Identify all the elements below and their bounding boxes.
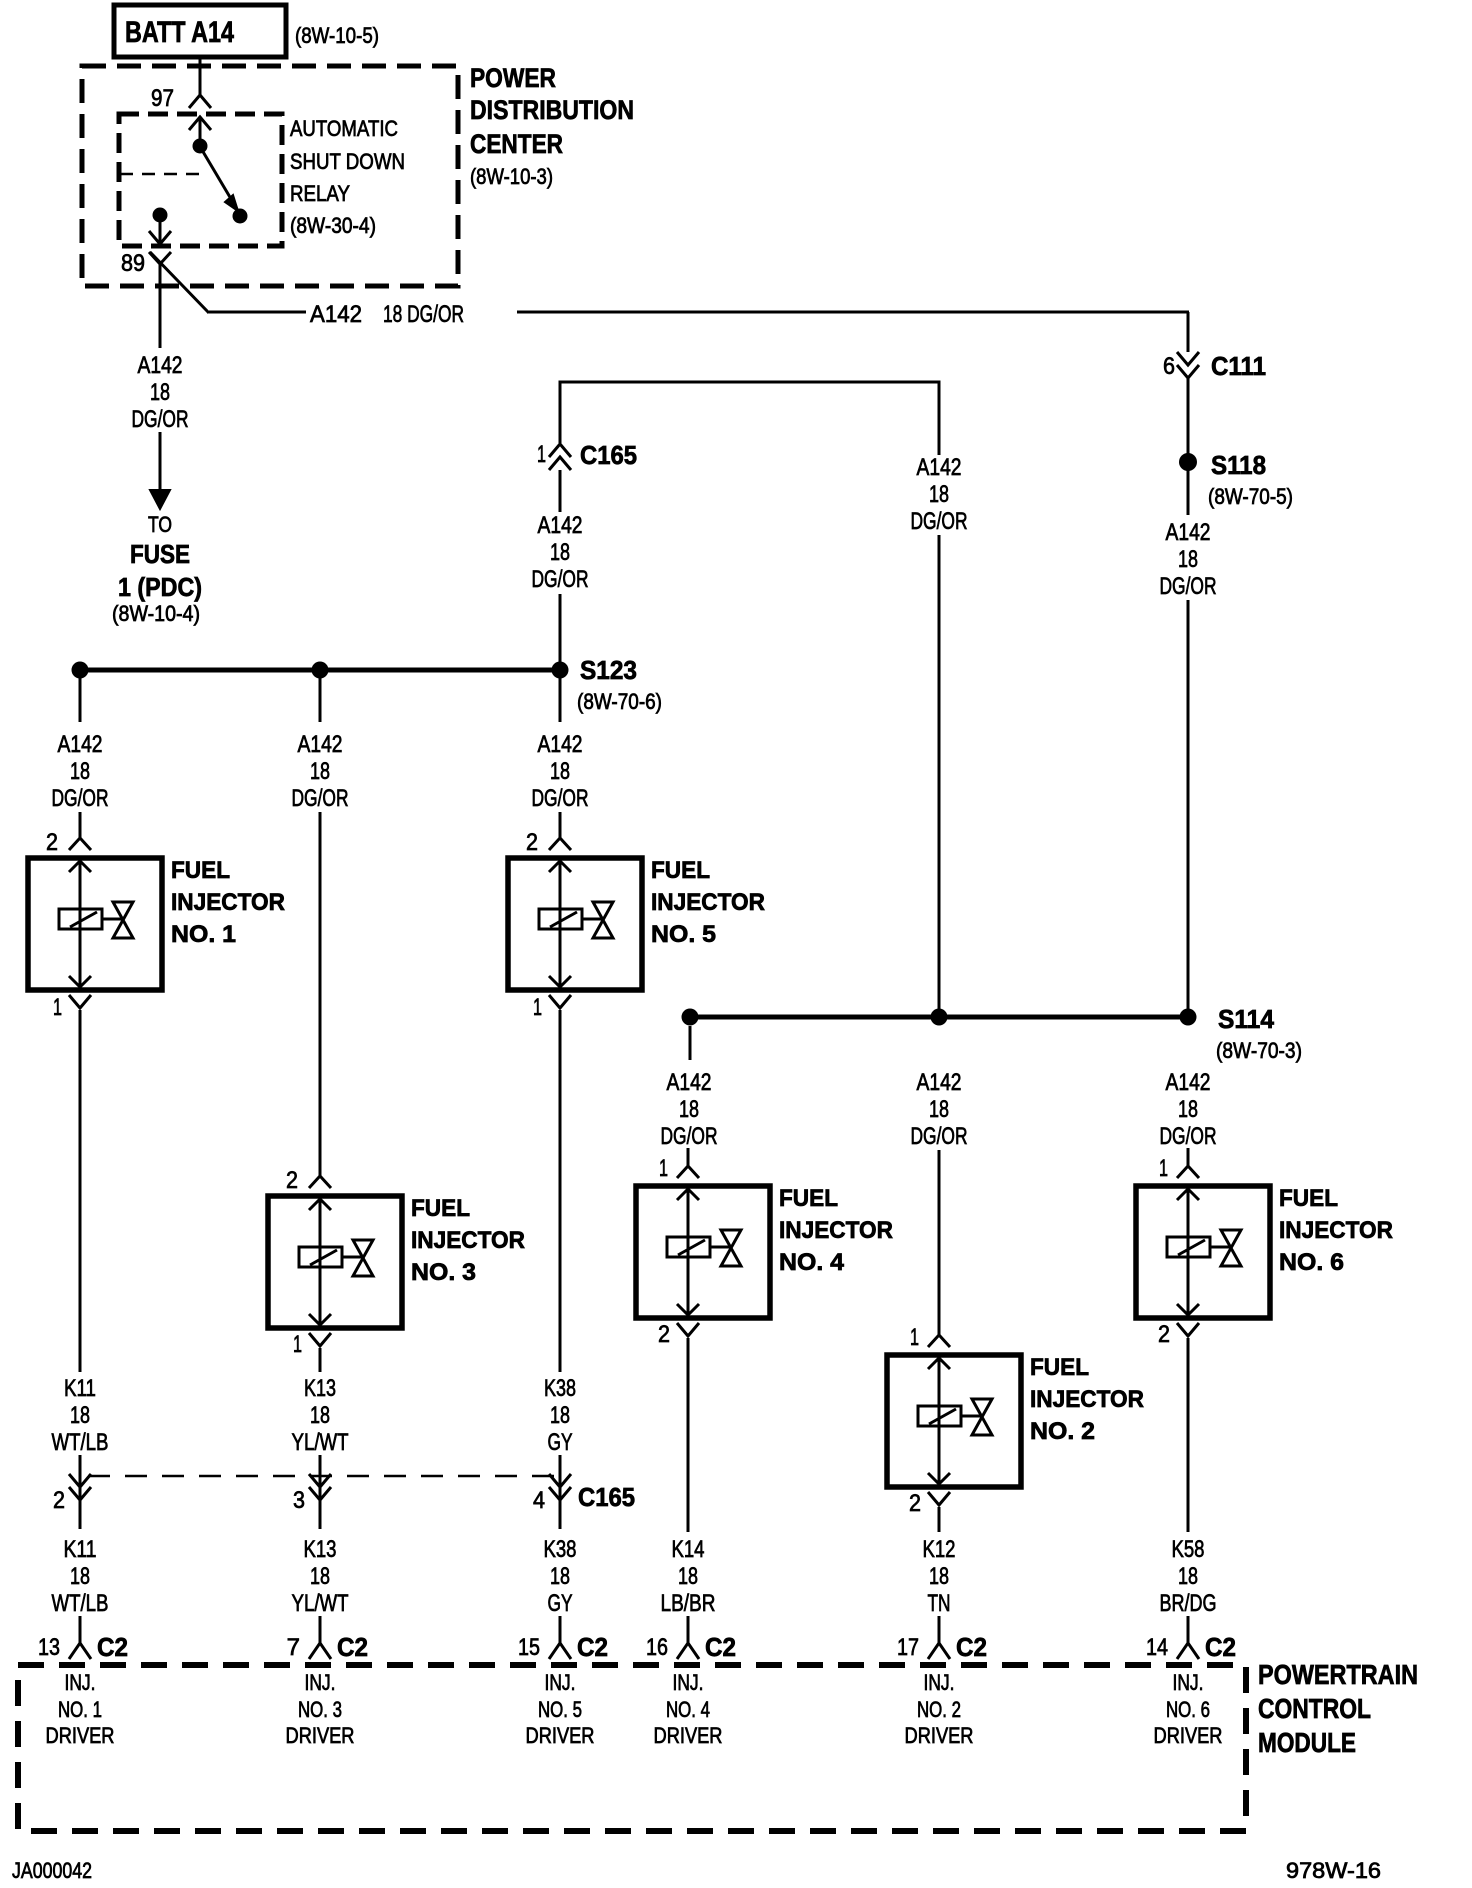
svg-text:INJECTOR: INJECTOR	[779, 1217, 893, 1244]
splice S123 dot	[552, 662, 569, 679]
svg-text:A142: A142	[310, 301, 362, 328]
svg-text:18 DG/OR: 18 DG/OR	[383, 301, 464, 328]
label A142 18 DG/OR inline	[310, 301, 464, 328]
splice S123 bus wire	[80, 668, 560, 673]
svg-text:(8W-70-3): (8W-70-3)	[1216, 1038, 1302, 1063]
wire into C165 pin 3	[319, 1455, 322, 1529]
wire to fuel injector 2 pin 1	[938, 1150, 941, 1335]
svg-text:NO. 2: NO. 2	[917, 1697, 961, 1722]
svg-text:NO. 5: NO. 5	[538, 1697, 582, 1722]
svg-text:DRIVER: DRIVER	[905, 1723, 974, 1748]
label INJ NO. 5 DRIVER	[526, 1670, 595, 1748]
svg-text:1: 1	[537, 441, 546, 468]
svg-text:18: 18	[550, 539, 570, 566]
svg-text:INJ.: INJ.	[545, 1670, 576, 1695]
svg-text:DRIVER: DRIVER	[1154, 1723, 1223, 1748]
svg-text:DRIVER: DRIVER	[286, 1723, 355, 1748]
label S123	[577, 655, 662, 714]
splice dot injector 3 branch	[312, 662, 329, 679]
svg-text:FUEL: FUEL	[779, 1185, 838, 1212]
svg-text:FUEL: FUEL	[171, 857, 230, 884]
label TO FUSE 1 (PDC)	[112, 512, 202, 626]
connector pin 97	[189, 95, 211, 108]
svg-text:YL/WT: YL/WT	[292, 1590, 349, 1617]
label INJ NO. 6 DRIVER	[1154, 1670, 1223, 1748]
label S114	[1216, 1004, 1302, 1063]
svg-text:16: 16	[646, 1634, 668, 1661]
wire into PCM pin 13	[79, 1616, 82, 1634]
relay internal dashed line	[120, 173, 208, 176]
fuel injector 4	[636, 1186, 770, 1318]
connector fuel injector 5 pin 2	[549, 838, 571, 850]
svg-text:A142: A142	[138, 352, 183, 379]
svg-text:(8W-30-4): (8W-30-4)	[290, 213, 376, 238]
svg-text:NO. 1: NO. 1	[171, 921, 236, 948]
splice dot injector 4 branch	[682, 1009, 699, 1026]
svg-text:JA000042: JA000042	[12, 1858, 92, 1883]
label INJ NO. 2 DRIVER	[905, 1670, 974, 1748]
svg-text:1: 1	[533, 994, 542, 1021]
svg-text:INJ.: INJ.	[305, 1670, 336, 1695]
label FUEL INJECTOR NO. 3	[411, 1195, 525, 1286]
relay output arrow to pin 89	[149, 222, 171, 244]
svg-text:C2: C2	[97, 1632, 128, 1662]
svg-text:DG/OR: DG/OR	[1160, 573, 1217, 600]
svg-text:A142: A142	[58, 731, 103, 758]
wire down to S114 center	[938, 535, 941, 1017]
svg-text:2: 2	[658, 1321, 670, 1348]
svg-text:A142: A142	[917, 454, 962, 481]
wire A142 branch horizontal left segment	[209, 311, 306, 314]
svg-text:2: 2	[526, 829, 538, 856]
wire below S118	[1187, 470, 1190, 515]
svg-text:18: 18	[1178, 1096, 1198, 1123]
svg-text:AUTOMATIC: AUTOMATIC	[290, 116, 398, 141]
svg-text:1: 1	[659, 1155, 668, 1182]
wire down to connector C111	[1187, 312, 1190, 352]
label INJ NO. 3 DRIVER	[286, 1670, 355, 1748]
power distribution center dashed box	[82, 66, 458, 286]
wire into PCM pin 7	[319, 1616, 322, 1634]
svg-text:15: 15	[518, 1634, 540, 1661]
svg-text:C2: C2	[956, 1632, 987, 1662]
connector fuel injector 2 pin 1	[928, 1335, 950, 1347]
svg-text:GY: GY	[548, 1590, 573, 1617]
label INJ NO. 1 DRIVER	[46, 1670, 115, 1748]
connector fuel injector 3 pin 2	[309, 1176, 331, 1188]
relay common contact dot	[193, 139, 208, 154]
svg-text:DG/OR: DG/OR	[911, 508, 968, 535]
svg-text:TN: TN	[928, 1590, 951, 1617]
svg-text:A142: A142	[298, 731, 343, 758]
svg-text:(8W-10-4): (8W-10-4)	[112, 601, 200, 626]
splice S118 dot	[1179, 453, 1197, 471]
svg-text:NO. 1: NO. 1	[58, 1697, 102, 1722]
svg-text:C2: C2	[1205, 1632, 1236, 1662]
svg-text:NO. 6: NO. 6	[1166, 1697, 1210, 1722]
svg-text:A142: A142	[1166, 519, 1211, 546]
svg-text:INJECTOR: INJECTOR	[1279, 1217, 1393, 1244]
svg-text:WT/LB: WT/LB	[52, 1429, 109, 1456]
svg-text:18: 18	[150, 379, 170, 406]
svg-text:POWERTRAIN: POWERTRAIN	[1258, 1659, 1418, 1690]
connector C165 pin 3	[309, 1474, 331, 1487]
arrow to fuse 1 PDC	[150, 490, 170, 509]
svg-text:DRIVER: DRIVER	[526, 1723, 595, 1748]
svg-text:NO. 4: NO. 4	[666, 1697, 710, 1722]
wire to splice S123	[559, 594, 562, 668]
svg-text:3: 3	[293, 1487, 305, 1514]
svg-text:18: 18	[550, 1402, 570, 1429]
wire below C165 pin 1	[559, 470, 562, 512]
connector pin 89	[149, 252, 171, 264]
wire below fuel injector 6	[1187, 1338, 1190, 1532]
wire below fuel injector 5	[559, 1010, 562, 1372]
connector fuel injector 4 pin 2	[677, 1323, 699, 1336]
svg-text:DG/OR: DG/OR	[532, 785, 589, 812]
svg-text:DG/OR: DG/OR	[52, 785, 109, 812]
automatic shut down relay dashed box	[119, 114, 282, 246]
wire below fuel injector 2	[938, 1507, 941, 1532]
svg-text:BATT A14: BATT A14	[125, 16, 234, 49]
svg-text:INJECTOR: INJECTOR	[651, 889, 765, 916]
svg-text:1: 1	[53, 994, 62, 1021]
connector C111 pin 6	[1177, 352, 1199, 365]
svg-text:A142: A142	[1166, 1069, 1211, 1096]
wire A142 branch horizontal to C111	[517, 311, 1189, 314]
svg-text:YL/WT: YL/WT	[292, 1429, 349, 1456]
label POWERTRAIN CONTROL MODULE	[1258, 1659, 1418, 1758]
svg-text:NO. 2: NO. 2	[1030, 1418, 1095, 1445]
svg-text:2: 2	[286, 1167, 298, 1194]
connector C2 pin 13	[69, 1630, 91, 1659]
connector fuel injector 6 pin 2	[1177, 1323, 1199, 1336]
svg-text:DRIVER: DRIVER	[46, 1723, 115, 1748]
wire to fuse 1 PDC	[159, 432, 162, 494]
svg-text:14: 14	[1146, 1634, 1168, 1661]
svg-text:C165: C165	[578, 1482, 635, 1512]
svg-text:C165: C165	[580, 440, 637, 470]
wire into PCM pin 16	[687, 1616, 690, 1634]
wire stub below S114 injector 4 branch	[689, 1026, 692, 1060]
svg-text:(8W-70-5): (8W-70-5)	[1208, 484, 1293, 509]
label AUTOMATIC SHUT DOWN RELAY	[290, 116, 405, 238]
fuel injector 2	[887, 1355, 1021, 1487]
svg-text:1 (PDC): 1 (PDC)	[118, 572, 202, 602]
svg-text:K14: K14	[672, 1536, 705, 1563]
wire S118 to S114	[1187, 600, 1190, 1017]
svg-text:BR/DG: BR/DG	[1160, 1590, 1217, 1617]
svg-text:NO. 6: NO. 6	[1279, 1249, 1344, 1276]
battery feed box BATT A14	[114, 5, 286, 57]
svg-text:CENTER: CENTER	[470, 129, 563, 159]
wire into C165 pin 2	[79, 1455, 82, 1529]
label S118	[1208, 450, 1293, 509]
svg-text:18: 18	[929, 1096, 949, 1123]
svg-text:18: 18	[70, 1402, 90, 1429]
svg-text:FUEL: FUEL	[651, 857, 710, 884]
svg-text:(8W-70-6): (8W-70-6)	[577, 689, 662, 714]
splice dot injector 2 branch	[931, 1009, 948, 1026]
fuel injector 1	[28, 858, 162, 990]
connector fuel injector 2 pin 2	[928, 1492, 950, 1505]
svg-text:18: 18	[929, 1563, 949, 1590]
svg-text:18: 18	[310, 758, 330, 785]
svg-text:1: 1	[910, 1324, 919, 1351]
wire to fuel injector 1 pin 2	[79, 812, 82, 838]
wire to fuel injector 3	[319, 812, 322, 1176]
wire stub to injector 4 pin 1	[687, 1148, 690, 1166]
relay NO contact dot	[233, 209, 248, 224]
svg-text:97: 97	[151, 85, 174, 112]
svg-text:SHUT DOWN: SHUT DOWN	[290, 149, 405, 174]
powertrain control module dashed box	[18, 1665, 1246, 1831]
diagonal branch leader from pin 89	[150, 252, 209, 313]
svg-text:A142: A142	[667, 1069, 712, 1096]
svg-text:18: 18	[70, 1563, 90, 1590]
svg-text:17: 17	[897, 1634, 919, 1661]
wire below fuel injector 1	[79, 1010, 82, 1372]
svg-text:WT/LB: WT/LB	[52, 1590, 109, 1617]
svg-text:K11: K11	[64, 1536, 97, 1563]
svg-text:DG/OR: DG/OR	[1160, 1123, 1217, 1150]
svg-text:18: 18	[1178, 1563, 1198, 1590]
svg-text:FUEL: FUEL	[1279, 1185, 1338, 1212]
connector C2 pin 7	[309, 1630, 331, 1659]
svg-text:DISTRIBUTION: DISTRIBUTION	[470, 95, 634, 125]
relay output contact dot pin 89	[153, 208, 168, 223]
label FUEL INJECTOR NO. 5	[651, 857, 765, 948]
svg-text:FUEL: FUEL	[411, 1195, 470, 1222]
svg-text:K38: K38	[544, 1375, 576, 1402]
svg-text:C111: C111	[1211, 351, 1266, 381]
svg-text:K11: K11	[64, 1375, 96, 1402]
svg-text:DRIVER: DRIVER	[654, 1723, 723, 1748]
splice S114 bus wire	[690, 1015, 1188, 1020]
svg-text:2: 2	[1158, 1321, 1170, 1348]
fuel injector 6	[1136, 1186, 1270, 1318]
svg-text:INJ.: INJ.	[65, 1670, 96, 1695]
label POWER DISTRIBUTION CENTER	[470, 63, 634, 189]
svg-text:DG/OR: DG/OR	[292, 785, 349, 812]
svg-text:(8W-10-3): (8W-10-3)	[470, 164, 553, 189]
svg-text:K58: K58	[1172, 1536, 1205, 1563]
svg-text:978W-16: 978W-16	[1286, 1858, 1381, 1883]
label FUEL INJECTOR NO. 4	[779, 1185, 893, 1276]
svg-text:S118: S118	[1211, 450, 1266, 480]
wire stub below splice x=80	[79, 676, 82, 722]
connector C165 pin 1	[549, 444, 571, 457]
svg-text:POWER: POWER	[470, 63, 556, 93]
wire BATT A14 to relay pin 97	[199, 57, 202, 95]
connector C2 pin 15	[549, 1630, 571, 1659]
svg-text:NO. 4: NO. 4	[779, 1249, 845, 1276]
svg-text:18: 18	[1178, 546, 1198, 573]
splice S114 dot	[1180, 1009, 1197, 1026]
svg-text:18: 18	[550, 758, 570, 785]
svg-text:FUSE: FUSE	[130, 539, 190, 569]
svg-text:A142: A142	[538, 731, 583, 758]
svg-text:2: 2	[46, 829, 58, 856]
svg-text:MODULE: MODULE	[1258, 1727, 1356, 1758]
svg-text:INJECTOR: INJECTOR	[411, 1227, 525, 1254]
svg-text:18: 18	[70, 758, 90, 785]
connector fuel injector 1 pin 2	[69, 838, 91, 850]
wire stub below splice x=320	[319, 676, 322, 722]
svg-text:DG/OR: DG/OR	[661, 1123, 718, 1150]
connector fuel injector 6 pin 1	[1177, 1166, 1199, 1178]
connector C2 pin 16	[677, 1630, 699, 1659]
svg-text:A142: A142	[917, 1069, 962, 1096]
svg-text:2: 2	[909, 1490, 921, 1517]
wire below fuel injector 4	[687, 1338, 690, 1532]
svg-text:18: 18	[678, 1563, 698, 1590]
connector fuel injector 5 pin 1	[549, 995, 571, 1008]
wire C111 to splice S118	[1187, 378, 1190, 455]
wire into C165 pin 4	[559, 1455, 562, 1529]
svg-text:GY: GY	[548, 1429, 573, 1456]
svg-text:13: 13	[38, 1634, 60, 1661]
svg-text:1: 1	[1159, 1155, 1168, 1182]
svg-text:K13: K13	[304, 1536, 337, 1563]
svg-text:4: 4	[533, 1487, 545, 1514]
connector fuel injector 4 pin 1	[677, 1166, 699, 1178]
wire stub below splice x=560	[559, 676, 562, 722]
label FUEL INJECTOR NO. 6	[1279, 1185, 1393, 1276]
svg-text:INJECTOR: INJECTOR	[171, 889, 285, 916]
svg-text:NO. 5: NO. 5	[651, 921, 716, 948]
svg-text:NO. 3: NO. 3	[298, 1697, 342, 1722]
svg-text:INJECTOR: INJECTOR	[1030, 1386, 1144, 1413]
svg-text:18: 18	[310, 1402, 330, 1429]
svg-text:C2: C2	[705, 1632, 736, 1662]
svg-text:1: 1	[293, 1331, 302, 1358]
wire to fuel injector 5 pin 2	[559, 812, 562, 838]
svg-text:RELAY: RELAY	[290, 181, 350, 206]
connector fuel injector 3 pin 1	[309, 1333, 331, 1346]
svg-text:C2: C2	[337, 1632, 368, 1662]
svg-text:S123: S123	[580, 655, 637, 685]
svg-text:18: 18	[310, 1563, 330, 1590]
svg-text:18: 18	[679, 1096, 699, 1123]
relay switch arm	[202, 150, 238, 211]
svg-text:DG/OR: DG/OR	[532, 566, 589, 593]
svg-text:DG/OR: DG/OR	[132, 406, 189, 433]
svg-text:K12: K12	[923, 1536, 956, 1563]
wire below fuel injector 3	[319, 1348, 322, 1372]
svg-text:18: 18	[550, 1563, 570, 1590]
svg-text:INJ.: INJ.	[673, 1670, 704, 1695]
wire horizontal branch to C165	[560, 382, 939, 455]
svg-text:2: 2	[53, 1487, 65, 1514]
label INJ NO. 4 DRIVER	[654, 1670, 723, 1748]
wire stub to injector 6 pin 1	[1187, 1148, 1190, 1166]
fuel injector 5	[508, 858, 642, 990]
connector C2 pin 14	[1177, 1630, 1199, 1659]
svg-text:INJ.: INJ.	[924, 1670, 955, 1695]
wire into PCM pin 17	[938, 1616, 941, 1634]
connector C165 pin 4	[549, 1474, 571, 1487]
svg-text:DG/OR: DG/OR	[911, 1123, 968, 1150]
connector C165 dashed line	[88, 1475, 556, 1478]
relay K1 entry arrow pin 97	[189, 117, 211, 140]
label FUEL INJECTOR NO. 2	[1030, 1354, 1144, 1445]
splice dot injector 1 branch	[72, 662, 89, 679]
connector C165 pin 2	[69, 1474, 91, 1487]
svg-text:S114: S114	[1218, 1004, 1275, 1034]
connector C2 pin 17	[928, 1630, 950, 1659]
svg-text:6: 6	[1163, 353, 1175, 380]
svg-text:A142: A142	[538, 512, 583, 539]
svg-text:LB/BR: LB/BR	[661, 1590, 716, 1617]
svg-text:FUEL: FUEL	[1030, 1354, 1089, 1381]
connector fuel injector 1 pin 1	[69, 995, 91, 1008]
svg-text:CONTROL: CONTROL	[1258, 1693, 1371, 1724]
fuel injector 3	[268, 1196, 402, 1328]
svg-text:INJ.: INJ.	[1173, 1670, 1204, 1695]
svg-text:89: 89	[121, 250, 145, 277]
wire A142 down from pin 89	[159, 264, 162, 348]
wire into PCM pin 14	[1187, 1616, 1190, 1634]
svg-text:(8W-10-5): (8W-10-5)	[295, 23, 379, 48]
svg-text:K38: K38	[544, 1536, 577, 1563]
label FUEL INJECTOR NO. 1	[171, 857, 285, 948]
svg-text:18: 18	[929, 481, 949, 508]
svg-text:C2: C2	[577, 1632, 608, 1662]
svg-text:NO. 3: NO. 3	[411, 1259, 476, 1286]
svg-text:7: 7	[287, 1634, 300, 1661]
svg-text:TO: TO	[148, 512, 172, 537]
wire into PCM pin 15	[559, 1616, 562, 1634]
svg-text:K13: K13	[304, 1375, 336, 1402]
